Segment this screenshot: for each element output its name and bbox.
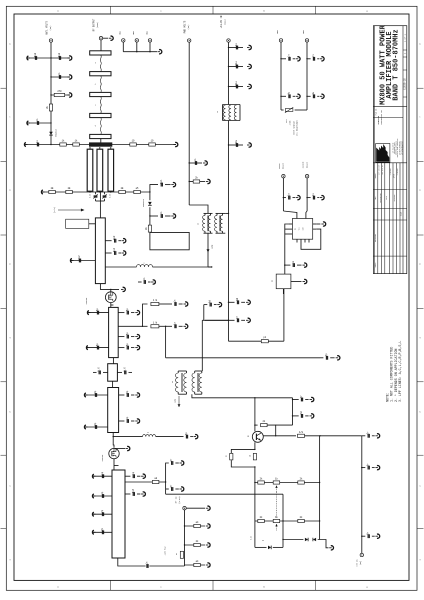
capacitor C33 — [171, 461, 173, 465]
svg-text:U1: U1 — [295, 228, 297, 230]
wire squiggle — [99, 97, 102, 114]
capacitor C18 — [96, 346, 98, 350]
ground — [246, 301, 249, 303]
wire — [113, 436, 142, 438]
wire — [229, 66, 244, 68]
stripline Z8 interstage — [108, 364, 118, 382]
ground — [310, 399, 313, 401]
wire — [361, 436, 363, 554]
svg-text:SPECTRA: SPECTRA — [377, 115, 380, 124]
wire — [159, 325, 172, 327]
wire — [51, 94, 70, 96]
wire squiggle — [99, 118, 102, 135]
wire — [316, 223, 320, 225]
wire squiggle — [99, 76, 102, 93]
ground — [206, 564, 209, 566]
ground — [180, 462, 183, 464]
inductor L1 wire — [105, 266, 136, 268]
capacitor C17 — [126, 335, 128, 339]
ground — [158, 51, 161, 53]
ground — [375, 435, 378, 437]
wire — [306, 211, 307, 219]
wire — [51, 76, 70, 78]
terminal J8 GND — [279, 39, 282, 42]
ground — [85, 426, 88, 428]
wire — [89, 223, 96, 225]
ground — [296, 58, 299, 60]
ground — [121, 288, 124, 290]
capacitor C31 — [132, 474, 134, 478]
svg-text:(9A1): (9A1) — [223, 19, 226, 25]
svg-text:1u: 1u — [217, 111, 219, 113]
capacitor C51 — [293, 415, 299, 417]
capacitor C24 — [94, 425, 96, 429]
wire — [112, 358, 114, 364]
resistor R22 1/8 — [298, 434, 305, 437]
wire — [85, 426, 108, 428]
svg-text:J.F. 10.6.97: J.F. 10.6.97 — [379, 165, 381, 175]
wire — [150, 215, 158, 217]
svg-text:NOTES: NOTES — [375, 263, 377, 268]
diode D2 MMBZ5246 — [148, 202, 152, 205]
capacitor C23 — [126, 393, 128, 397]
svg-text:a4: a4 — [262, 540, 264, 542]
bias loop wire — [150, 232, 189, 250]
capacitor C29 — [101, 512, 103, 516]
ground — [184, 303, 187, 305]
svg-text:p1: p1 — [226, 455, 228, 457]
terminal GND 2 — [135, 39, 138, 42]
ground — [329, 547, 332, 549]
wire — [122, 42, 124, 52]
svg-text:Q1: Q1 — [248, 435, 250, 437]
capacitor C16 — [174, 324, 176, 328]
capacitor C42 — [288, 196, 290, 200]
svg-text:MMBZ5246: MMBZ5246 — [56, 129, 58, 137]
trim pot dashed link — [276, 492, 278, 518]
resistor R8 — [49, 190, 56, 193]
resistor R16 — [194, 524, 201, 527]
capacitor C47 — [312, 57, 314, 61]
wire — [307, 58, 311, 60]
svg-text:470R: 470R — [289, 120, 292, 126]
ground — [68, 94, 71, 96]
resistor R7 2k — [189, 181, 205, 183]
capacitor C6 — [189, 162, 202, 164]
revision table — [373, 162, 406, 164]
diode D1 MMBZ5246 — [49, 132, 53, 135]
ground — [93, 531, 96, 533]
svg-text:RF OUTPUT: RF OUTPUT — [93, 18, 96, 31]
ground — [321, 223, 324, 225]
capacitor C54 — [367, 534, 369, 538]
svg-text:BAND T 850-870MHz: BAND T 850-870MHz — [392, 29, 400, 100]
annotation arrow (C/W) — [58, 209, 82, 211]
terminal J7 CLOCK — [305, 175, 308, 178]
svg-text:+13V PA2: +13V PA2 — [164, 546, 167, 555]
wire — [229, 340, 284, 342]
resistor R28 — [298, 519, 305, 522]
wire — [285, 264, 291, 266]
wire — [159, 463, 169, 482]
ground — [135, 420, 138, 422]
wire — [110, 289, 112, 291]
capacitor C41 — [203, 305, 205, 321]
wire — [85, 394, 108, 396]
ground — [194, 436, 197, 438]
wire — [103, 37, 109, 39]
wire — [254, 398, 256, 432]
wire — [319, 436, 321, 540]
ground — [336, 357, 339, 359]
drawing number C1030-10 — [403, 69, 407, 71]
svg-text:10u: 10u — [235, 81, 238, 86]
resistor R4 — [73, 143, 80, 146]
capacitor C37 — [235, 85, 237, 89]
capacitor C13 — [96, 311, 98, 315]
capacitor C28 — [101, 494, 103, 498]
wire — [50, 42, 52, 144]
wire — [254, 467, 256, 483]
zone ticks right margin — [417, 87, 424, 89]
terminal GND 3 — [148, 39, 151, 42]
wire — [273, 546, 283, 548]
diode D3 1N4148 — [268, 546, 271, 550]
svg-text:CLOCK: CLOCK — [302, 161, 305, 168]
wire — [149, 207, 151, 225]
wire — [156, 436, 184, 438]
capacitor C15 — [174, 302, 176, 306]
svg-text:8p2: 8p2 — [113, 247, 116, 252]
wire — [105, 252, 111, 254]
capacitor C55 series — [146, 564, 150, 568]
capacitor C7 — [160, 183, 162, 187]
capacitor C30 — [101, 530, 103, 534]
terminal GND 1 — [122, 39, 125, 42]
svg-text:(0.2W): (0.2W) — [178, 496, 181, 503]
resistor R3 — [60, 143, 67, 146]
ground — [135, 347, 138, 349]
capacitor C20 series — [103, 371, 108, 373]
wire — [93, 513, 112, 515]
wire — [28, 57, 71, 59]
ground — [28, 57, 31, 59]
ground — [135, 336, 138, 338]
ground — [151, 281, 154, 283]
resistor R21 2k — [255, 424, 258, 426]
wire — [282, 289, 284, 294]
svg-text:2k: 2k — [250, 455, 252, 457]
wire — [149, 42, 151, 52]
ground — [109, 37, 112, 39]
wire RC branch upper — [118, 325, 142, 327]
wire — [88, 312, 109, 314]
capacitor C12 — [143, 280, 145, 284]
wire — [267, 425, 276, 436]
wire — [110, 303, 112, 308]
resistor R15 a8 — [152, 480, 159, 483]
capacitor C32 — [132, 492, 134, 496]
wire — [281, 109, 284, 111]
wire — [118, 336, 124, 338]
ground — [42, 191, 45, 193]
wire — [254, 483, 256, 522]
wire — [125, 481, 152, 483]
ground — [122, 240, 125, 242]
resistor R2 2k — [49, 104, 52, 111]
resistor R6 — [149, 143, 156, 146]
svg-text:T.HUTTON: T.HUTTON — [390, 169, 392, 176]
stripline Z4 — [90, 113, 111, 117]
wire — [153, 266, 212, 268]
wire — [100, 284, 119, 290]
capacitor C34 — [171, 487, 173, 491]
capacitor C48 — [312, 94, 314, 98]
resistor R11 — [134, 190, 141, 193]
wire — [93, 475, 112, 477]
stripline Z10 output — [112, 470, 125, 558]
svg-text:3. LPF LINES: A,C,L,C,R,P,B,S: 3. LPF LINES: A,C,L,C,R,P,B,S,L — [398, 341, 402, 402]
wire — [119, 394, 125, 396]
wire — [185, 564, 206, 566]
svg-text:2t: 2t — [147, 432, 149, 434]
wire — [291, 281, 302, 283]
ground — [296, 95, 299, 97]
wire — [306, 42, 308, 110]
svg-text:MMBZ5246: MMBZ5246 — [143, 199, 145, 207]
ground — [174, 144, 177, 146]
svg-text:REVISIONS: REVISIONS — [375, 234, 377, 242]
svg-text:MRF186: MRF186 — [102, 455, 104, 461]
ground — [68, 57, 71, 59]
sheet cell — [403, 49, 407, 51]
svg-text:3t: 3t — [172, 381, 174, 383]
ground — [320, 95, 323, 97]
wire — [112, 433, 114, 437]
wire — [225, 212, 228, 214]
ground — [126, 448, 129, 450]
title block column divider — [402, 26, 404, 274]
wire — [159, 303, 172, 305]
capacitor C2 — [58, 56, 60, 60]
svg-text:1 W: 1 W — [153, 321, 158, 324]
wire — [362, 467, 366, 469]
capacitor C45 — [288, 57, 290, 61]
wire — [307, 197, 311, 199]
wire — [305, 435, 362, 437]
svg-text:a4: a4 — [176, 553, 178, 555]
svg-text:1Amp: 1Amp — [211, 245, 214, 249]
resistor R25 — [258, 481, 265, 484]
logo mountain mark — [376, 144, 389, 162]
wire — [112, 437, 115, 448]
capacitor C36 — [235, 65, 237, 69]
wire — [185, 544, 206, 546]
capacitor C5 — [36, 143, 38, 147]
wire — [150, 185, 158, 192]
svg-text:5-65: 5-65 — [110, 194, 112, 198]
cage row — [373, 117, 403, 119]
wire — [42, 191, 150, 193]
svg-text:C1030-10: C1030-10 — [403, 78, 406, 90]
zone ticks bottom margin — [110, 580, 112, 590]
svg-text:5.6: 5.6 — [123, 367, 126, 372]
wire — [186, 507, 205, 509]
wire — [125, 493, 130, 495]
wire — [165, 482, 167, 494]
wire — [189, 205, 208, 213]
ground — [206, 181, 209, 183]
ground — [71, 260, 74, 262]
wire — [228, 121, 230, 342]
capacitor C14 — [126, 311, 128, 315]
wire — [118, 347, 124, 349]
ground — [375, 467, 378, 469]
ground — [25, 144, 28, 146]
wire — [281, 58, 286, 60]
wire — [201, 320, 203, 371]
resistor R18 series — [180, 551, 183, 558]
svg-text:+13.8V IN: +13.8V IN — [220, 15, 223, 28]
svg-text:(9A4): (9A4) — [305, 162, 308, 168]
op-amp U1 shift register — [292, 219, 312, 240]
trimmer capacitor CV1 — [94, 195, 98, 197]
svg-text:FSCM NO.: FSCM NO. — [376, 108, 378, 115]
svg-text:(50W): (50W) — [96, 22, 99, 28]
svg-text:8p2: 8p2 — [113, 235, 116, 240]
resistor R19 — [194, 563, 201, 566]
capacitor C11 — [78, 259, 80, 263]
wire — [282, 178, 284, 211]
wire — [89, 190, 91, 193]
stripline Z3 — [90, 92, 111, 96]
ground — [203, 162, 206, 164]
svg-text:VTT IN: VTT IN — [356, 559, 359, 567]
wire — [87, 347, 109, 349]
wire — [136, 42, 138, 52]
terminal J6 DATA — [282, 175, 285, 178]
ground — [310, 415, 313, 417]
coupled stripline bars — [87, 149, 93, 191]
capacitor C21 series — [117, 371, 122, 373]
long bias line — [166, 357, 320, 359]
ground — [93, 495, 96, 497]
wire — [307, 95, 311, 97]
terminal J10 VTT IN — [360, 553, 363, 556]
wire — [112, 381, 114, 387]
resistor R26 — [298, 481, 305, 484]
svg-text:(C/W): (C/W) — [53, 207, 56, 213]
svg-text:PWD VOLTS: PWD VOLTS — [184, 20, 187, 33]
transistor Q3 BC807 — [252, 431, 263, 442]
terminal J5 +13.8V IN — [227, 39, 230, 42]
wire — [263, 435, 296, 437]
terminal J2 RF OUTPUT — [99, 37, 102, 40]
svg-text:2t: 2t — [198, 223, 200, 225]
ground — [303, 264, 306, 266]
svg-text:EM sales@spectra: EM sales@spectra — [402, 141, 404, 154]
ground — [247, 47, 250, 49]
wire — [114, 448, 125, 450]
wire — [188, 42, 190, 205]
ground — [122, 252, 125, 254]
resistor R10 — [119, 190, 126, 193]
svg-text:10u: 10u — [235, 139, 238, 144]
capacitor C4 — [36, 121, 38, 125]
capacitor C49 — [320, 357, 323, 359]
wire RC branch lower — [143, 325, 148, 327]
title text box — [373, 105, 406, 107]
svg-text:REV: REV — [375, 197, 377, 200]
capacitor C3 — [58, 75, 60, 79]
wire — [185, 525, 206, 527]
capacitor C19 — [126, 346, 128, 350]
trimmer capacitor CV2 — [103, 195, 107, 197]
inductor L2 — [143, 435, 156, 437]
ground — [180, 488, 183, 490]
wire — [283, 289, 285, 342]
wire — [255, 482, 320, 484]
ground — [320, 197, 323, 199]
capacitor C25 — [126, 419, 128, 423]
capacitor C53 — [367, 466, 369, 470]
ground — [141, 493, 144, 495]
terminal J3 PWD VOLTS — [188, 39, 191, 42]
ground — [217, 304, 220, 306]
wire — [99, 192, 101, 218]
ground — [303, 281, 306, 283]
ground — [135, 312, 138, 314]
resistor R27 — [258, 519, 265, 522]
svg-text:T.HUTTON: T.HUTTON — [397, 169, 399, 176]
ground — [171, 184, 174, 186]
ground — [93, 513, 96, 515]
wire — [71, 260, 95, 262]
capacitor C9 — [114, 239, 116, 243]
stripline Z9 — [108, 388, 119, 433]
ground — [171, 215, 174, 217]
wire — [100, 139, 102, 145]
capacitor C43 — [312, 196, 314, 200]
resistor R24 2k — [253, 453, 256, 460]
wire — [89, 147, 91, 149]
wire — [149, 192, 151, 200]
wire — [205, 319, 235, 321]
ground — [135, 394, 138, 396]
wire — [254, 521, 256, 547]
wire — [25, 144, 176, 146]
ground — [28, 122, 31, 124]
svg-text:6p8: 6p8 — [34, 52, 37, 57]
stripline Z2 — [90, 72, 111, 76]
ground — [206, 525, 209, 527]
trim pot VR2 — [273, 519, 280, 522]
svg-text:CHK 10.6.97: CHK 10.6.97 — [382, 165, 384, 174]
stripline Z5 — [90, 134, 111, 138]
zener D4 — [283, 539, 303, 541]
ground — [247, 86, 250, 88]
wire — [283, 211, 297, 219]
resistor R5 — [130, 143, 137, 146]
svg-text:ENGINEERING INC: ENGINEERING INC — [381, 110, 383, 124]
stripline Z1 — [90, 51, 111, 55]
svg-text:6p8: 6p8 — [58, 52, 61, 57]
terminal J1 ANTL VOLTS — [49, 39, 52, 42]
svg-text:1 W: 1 W — [153, 299, 158, 302]
svg-text:5.6V: 5.6V — [251, 536, 253, 540]
svg-text:MRF186: MRF186 — [86, 298, 88, 304]
svg-text:a: a — [143, 263, 144, 265]
